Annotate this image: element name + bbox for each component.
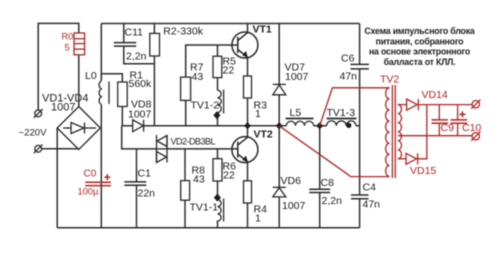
resistor R1: [118, 82, 128, 107]
capacitor C6: [350, 64, 369, 69]
transformer winding TV1-1 with core and dot: [218, 199, 224, 222]
svg-text:C11: C11: [125, 27, 144, 39]
svg-text:VD2-DB3BL: VD2-DB3BL: [171, 137, 216, 147]
svg-text:VT1: VT1: [253, 24, 272, 36]
node bridge right rail down through C0: [100, 128, 102, 228]
diac VD2: [157, 135, 168, 163]
transistor VT2: [232, 137, 258, 163]
diode VD15: [406, 153, 417, 164]
svg-text:2,2n: 2,2n: [126, 51, 147, 63]
label TV2: [380, 74, 399, 86]
wire VD8 anode: [122, 125, 133, 127]
wire mid rail between L5 and TV1-3: [314, 125, 327, 127]
svg-text:2,2n: 2,2n: [322, 195, 343, 207]
wire bottom bus: [57, 227, 359, 229]
wire input terminal 2 to bridge bottom: [42, 148, 79, 150]
svg-text:TV1-3: TV1-3: [327, 107, 356, 119]
svg-text:C6: C6: [341, 53, 355, 65]
svg-text:43: 43: [192, 71, 204, 83]
wire R6 to TV1-1: [217, 181, 219, 195]
node junction VD7/VD6 rail: [276, 122, 283, 129]
label C10: [462, 122, 481, 134]
capacitor C11: [114, 43, 137, 47]
wire VD15 cathode up to + rail: [418, 105, 427, 159]
svg-text:C9: C9: [441, 122, 455, 134]
wire red diag from L5/TV1-3 node to TV2 primary top: [320, 88, 390, 126]
inductor L5 with core bar: [286, 121, 313, 126]
wire TV1-2 bottom to mid rail: [217, 113, 219, 126]
svg-text:R2-330k: R2-330k: [163, 26, 203, 38]
resistor R8: [181, 181, 190, 201]
wire C8 bottom lead: [319, 192, 321, 227]
bridge rectifier VD1-VD4 diamond: [57, 107, 100, 150]
transistor VT1: [232, 32, 258, 58]
svg-text:1007: 1007: [51, 102, 75, 114]
output terminal minus: [471, 132, 480, 141]
wire C6 to C4 rail: [359, 69, 361, 195]
svg-text:TV1-1: TV1-1: [190, 202, 219, 214]
wire VD8 cathode to mid node: [144, 125, 155, 127]
C10 plus sign: [459, 113, 465, 115]
wire C11 bottom to R2 bottom: [124, 46, 155, 64]
resistor R4: [244, 181, 252, 203]
capacitor C9 plates: [432, 119, 449, 121]
wire R7 bottom lead: [185, 100, 187, 125]
wire C6/C4 rail top: [359, 24, 361, 65]
node junction L5/TV1-3/C8: [316, 122, 323, 129]
capacitor C4: [351, 195, 369, 199]
svg-text:22n: 22n: [138, 188, 156, 200]
input terminal upper (~220V): [34, 109, 43, 118]
svg-text:C10: C10: [462, 122, 481, 134]
svg-text:1: 1: [255, 213, 261, 225]
svg-text:Схема импульсного блока: Схема импульсного блока: [364, 26, 475, 36]
label VD14: [422, 89, 448, 101]
transformer winding TV1-2 with core and dot: [218, 90, 224, 114]
svg-text:VD15: VD15: [410, 165, 436, 177]
svg-text:C4: C4: [363, 182, 377, 194]
wire top-left input to R0: [38, 23, 79, 110]
svg-text:VD14: VD14: [422, 89, 448, 101]
wire C1 top lead: [136, 149, 138, 182]
node junction VT2 collector: [244, 122, 251, 129]
svg-text:C8: C8: [321, 177, 335, 189]
wire top bus: [101, 23, 359, 25]
wire VD7/VD6 rail: [278, 24, 280, 85]
inductor L0 with core: [99, 81, 109, 105]
output terminal plus: [471, 100, 480, 109]
wire VT2 collector: [247, 126, 249, 137]
wire R5 top lead: [217, 45, 219, 56]
wire diac line to VT2 base: [167, 148, 238, 150]
label C9: [441, 122, 455, 134]
svg-text:VD6: VD6: [281, 175, 302, 187]
capacitor C10 plates: [451, 119, 468, 121]
svg-text:на основе электронного: на основе электронного: [369, 47, 471, 57]
resistor R2: [150, 33, 160, 56]
capacitor C0 (red, electrolytic): [85, 174, 111, 185]
diode VD7: [273, 84, 286, 94]
svg-text:балласта от КЛЛ.: балласта от КЛЛ.: [384, 57, 456, 67]
wire TV1-1 bottom to bus: [217, 221, 219, 228]
resistor R6: [213, 159, 222, 181]
wire C11 lead top: [123, 24, 125, 43]
svg-text:1007: 1007: [128, 109, 152, 121]
svg-text:питания, собранного: питания, собранного: [376, 36, 465, 46]
wire secondary bottom tap to VD15: [398, 158, 406, 160]
svg-text:47n: 47n: [363, 199, 381, 211]
wire R4 to bottom bus: [247, 203, 249, 228]
title text block: [364, 26, 475, 67]
wire R8 top lead: [184, 149, 186, 181]
wire VD6 to bottom bus: [278, 197, 280, 228]
wire branch to R1: [101, 74, 122, 82]
svg-text:43: 43: [193, 174, 205, 186]
wire mid rail (VT1 emitter / VT2 collector node): [154, 125, 286, 127]
svg-text:TV2: TV2: [380, 74, 399, 86]
diode VD6: [273, 187, 286, 197]
capacitor C10 leads: [457, 105, 459, 120]
transformer winding TV1-3 with core bar and dot: [327, 121, 356, 126]
wire R8 bottom lead: [184, 200, 186, 228]
wire bridge right up to L0: [100, 105, 102, 129]
wire C1 bottom lead: [136, 185, 138, 228]
wire R2 bottom down to mid wire: [153, 56, 155, 126]
svg-text:22: 22: [223, 65, 235, 77]
svg-text:~220V: ~220V: [19, 128, 48, 139]
svg-text:R0: R0: [62, 32, 74, 42]
diode VD8: [133, 120, 144, 132]
wire R2 top lead: [153, 24, 155, 34]
svg-text:L0: L0: [85, 70, 97, 82]
input terminal lower (~220V): [34, 144, 43, 153]
wire TV1-3 to C6/C4 rail: [356, 125, 360, 127]
wire R3 to mid rail: [247, 98, 249, 126]
diode VD14: [407, 99, 418, 110]
wire VD7 to mid rail: [278, 95, 280, 188]
wire VT2 emitter to R4: [247, 162, 249, 181]
svg-text:1007: 1007: [285, 71, 309, 83]
wire L0 to top bus: [100, 24, 102, 82]
svg-text:C0: C0: [84, 169, 97, 180]
svg-text:TV1-2: TV1-2: [191, 100, 220, 112]
capacitor C1: [124, 182, 146, 185]
capacitor C9 leads: [438, 105, 440, 120]
wire R6 top lead: [217, 149, 219, 159]
red modification circuit: [279, 85, 472, 178]
svg-text:VT2: VT2: [254, 129, 273, 141]
svg-text:47n: 47n: [340, 71, 358, 83]
resistor R5: [213, 56, 222, 77]
transformer TV2 secondary: [398, 105, 402, 159]
transformer TV2 core: [391, 85, 393, 178]
resistor R3: [244, 76, 252, 98]
wire VT1 collector to top bus: [247, 24, 249, 33]
wire secondary top tap to VD14: [398, 104, 407, 106]
wire red diag from mid node to TV2 primary bottom: [279, 126, 389, 177]
transformer TV2 primary: [386, 88, 390, 177]
svg-text:C1: C1: [138, 168, 152, 180]
wire R0 to bridge top: [78, 55, 80, 107]
wire R5 to TV1-2: [217, 78, 219, 91]
svg-text:100µ: 100µ: [78, 186, 100, 197]
resistor R7: [181, 77, 191, 100]
wire R1 to VD8 node: [121, 107, 123, 126]
capacitor C8: [309, 189, 330, 192]
svg-text:560k: 560k: [129, 78, 153, 90]
svg-text:1: 1: [255, 108, 261, 120]
svg-text:1007: 1007: [282, 200, 306, 212]
resistor R0 (red fusible): [74, 33, 85, 55]
label R0 5: [62, 32, 74, 53]
svg-text:5: 5: [65, 43, 70, 53]
node bridge left to bottom bus: [56, 128, 58, 228]
wire VD14 to + output terminal: [418, 104, 472, 106]
wire VT1 base line: [186, 45, 238, 77]
svg-text:22: 22: [223, 170, 235, 182]
label C0 100u: [78, 169, 100, 197]
wire C8 top lead: [319, 126, 321, 190]
wire node R1/VD8 down to diac line: [122, 126, 157, 149]
label VD15: [410, 165, 436, 177]
svg-text:L5: L5: [290, 107, 302, 119]
wire C4 to bottom bus: [359, 199, 361, 228]
wire VT1 emitter to R3: [247, 58, 249, 76]
wire secondary center tap to - output terminal: [398, 135, 472, 137]
